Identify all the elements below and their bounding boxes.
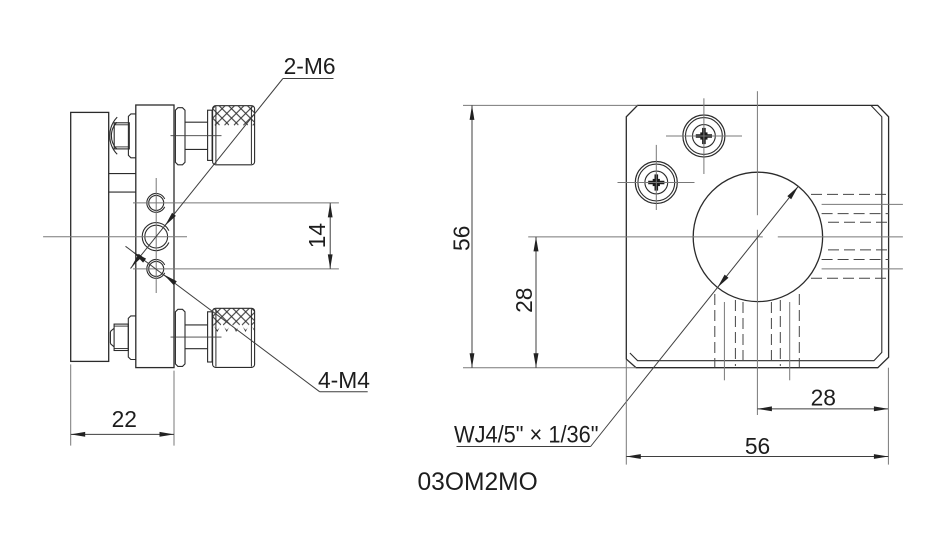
svg-text:28: 28 — [811, 385, 836, 411]
svg-text:22: 22 — [112, 406, 137, 432]
svg-text:4-M4: 4-M4 — [318, 367, 370, 393]
svg-text:56: 56 — [745, 433, 770, 459]
svg-text:28: 28 — [511, 288, 537, 313]
svg-text:2-M6: 2-M6 — [284, 53, 336, 79]
svg-text:56: 56 — [449, 226, 475, 251]
svg-text:WJ4/5" × 1/36": WJ4/5" × 1/36" — [454, 422, 599, 449]
svg-text:03OM2MO: 03OM2MO — [418, 469, 538, 496]
svg-text:14: 14 — [304, 223, 330, 249]
